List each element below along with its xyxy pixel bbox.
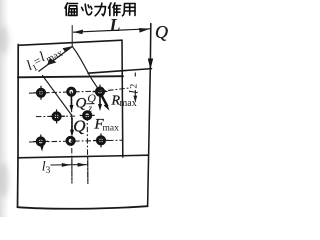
svg-text:3: 3 bbox=[46, 166, 51, 176]
svg-text:max: max bbox=[103, 124, 120, 134]
svg-text:max: max bbox=[120, 98, 137, 109]
svg-text:2: 2 bbox=[130, 84, 140, 89]
svg-text:Q: Q bbox=[155, 22, 168, 42]
svg-text:z: z bbox=[87, 104, 92, 115]
svg-text:l: l bbox=[126, 90, 141, 94]
svg-text:L: L bbox=[109, 15, 121, 35]
svg-text:Q: Q bbox=[76, 96, 87, 112]
svg-text:Q: Q bbox=[73, 117, 85, 136]
